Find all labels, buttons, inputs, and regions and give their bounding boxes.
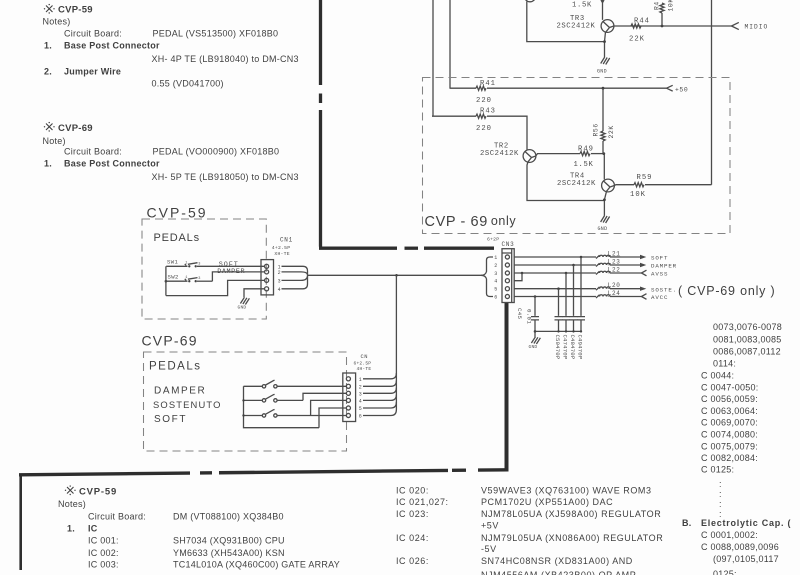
svg-text:C 0001,0002:: C 0001,0002:: [701, 530, 758, 540]
svg-text:CVP-69: CVP-69: [58, 123, 93, 134]
svg-text:R4: R4: [654, 1, 661, 10]
svg-text:C 0044:: C 0044:: [701, 371, 734, 381]
resistor R56 22K (vertical): [593, 88, 616, 153]
svg-text:3: 3: [494, 271, 497, 277]
svg-text:R56: R56: [593, 123, 600, 136]
svg-text:C47470P: C47470P: [562, 335, 569, 360]
svg-text:Base Post Connector: Base Post Connector: [64, 41, 160, 51]
switch sostenuto pedal: [244, 394, 304, 402]
wire (vertical feed to R41): [449, 0, 451, 88]
svg-text:22K: 22K: [629, 35, 645, 43]
junction node (emitter rail): [603, 198, 606, 201]
switch SW2 (DAMPER): [166, 274, 212, 283]
svg-text:R59: R59: [637, 174, 653, 182]
capacitor C47 470P: [562, 273, 570, 360]
wire common rail (left): [165, 266, 167, 295]
resistor R59: [614, 174, 711, 199]
heavy bus line (horizontal, y=248): [319, 247, 494, 250]
svg-text:NJM4556AM (XB423B00) OP AMP: NJM4556AM (XB423B00) OP AMP: [481, 570, 636, 575]
svg-text:CVP-59: CVP-59: [147, 205, 208, 221]
svg-text:4+2.5P: 4+2.5P: [272, 245, 290, 251]
svg-text:IC 023:: IC 023:: [396, 509, 429, 519]
svg-text:GND: GND: [529, 344, 538, 350]
junction node (+50 / R56): [602, 87, 605, 90]
wire CN pin4 into soft line: [311, 400, 346, 415]
note block bottom-right (capacitor list): [682, 322, 791, 575]
svg-text:R49: R49: [578, 146, 594, 154]
resistor R44: [629, 18, 650, 44]
reference mark ※: [44, 122, 55, 132]
svg-text:SOFT: SOFT: [154, 414, 187, 425]
svg-text:Electrolytic Cap. (: Electrolytic Cap. (: [701, 518, 791, 528]
capacitor C49 470P: [577, 257, 585, 360]
svg-text:Circuit Board:: Circuit Board:: [64, 147, 122, 157]
svg-text:NJM79L05UA (XN086A00) REGULA: NJM79L05UA (XN086A00) REGULATOR: [481, 533, 663, 543]
svg-text:Notes): Notes): [43, 17, 71, 27]
svg-text:220: 220: [476, 125, 492, 133]
svg-text:PEDAL (VS513500) XF018B0: PEDAL (VS513500) XF018B0: [153, 29, 279, 39]
svg-text:1: 1: [185, 276, 187, 280]
transistor TR4: [557, 172, 614, 192]
junction node (rail/sostenuto): [242, 399, 244, 401]
wire CN3 pin2 (DAMPER line): [514, 264, 596, 266]
svg-text:1: 1: [494, 255, 497, 261]
svg-text:0.01: 0.01: [525, 309, 532, 324]
junction nodes on ground rail: [534, 330, 537, 333]
svg-text:TC14L010A (XQ460C00) GATE ARRA: TC14L010A (XQ460C00) GATE ARRAY: [173, 560, 340, 570]
wire R56/R49 node down to TR4: [603, 154, 605, 180]
wire cable CN1 to CN3: [307, 274, 481, 276]
svg-text:DM (VT088100) XQ384B0: DM (VT088100) XQ384B0: [173, 512, 284, 522]
svg-text:Base Post Connector: Base Post Connector: [64, 159, 160, 169]
svg-text:C 0069,0070:: C 0069,0070:: [701, 418, 758, 428]
wire R43 to TR2 base: [487, 116, 527, 150]
svg-text:GND: GND: [238, 304, 247, 310]
wire CN3 pin3 (AVSS line): [514, 272, 596, 274]
svg-text:0086,0087,0112: 0086,0087,0112: [713, 347, 781, 357]
svg-text:CN: CN: [361, 354, 368, 360]
node DAMPER (arrow + label): [640, 263, 677, 270]
svg-text:1: 1: [359, 377, 362, 383]
svg-text:C 0082,0084:: C 0082,0084:: [701, 453, 758, 463]
svg-text:MIDIO: MIDIO: [745, 24, 769, 31]
svg-text:0081,0083,0085: 0081,0083,0085: [713, 335, 782, 345]
connector CN3: [487, 237, 514, 303]
svg-text:C48470P: C48470P: [569, 335, 576, 360]
svg-text:IC 003:: IC 003:: [88, 560, 119, 570]
junction node (cable split to CVP-69 CN): [395, 274, 398, 277]
inductor L24: [596, 290, 642, 298]
node AVSS (arrow + label): [642, 270, 669, 277]
resistor R41: [450, 80, 496, 105]
svg-text:PEDALs: PEDALs: [154, 232, 200, 244]
junction node (SW2 left): [165, 280, 168, 283]
transistor TR3: [557, 15, 614, 33]
junction node (emitter/gnd): [603, 40, 606, 43]
heavy bus line (vertical divider, x=320): [319, 0, 322, 247]
svg-text:SW2: SW2: [168, 274, 179, 281]
capacitor C50 470P: [554, 289, 562, 360]
junction node pin5/C50: [557, 287, 560, 290]
svg-text:10K: 10K: [668, 0, 675, 12]
svg-text::: :: [719, 479, 722, 489]
svg-text:C 0047-0050:: C 0047-0050:: [701, 383, 759, 393]
resistor R49: [536, 146, 605, 169]
capacitor C45 0.01: [516, 297, 539, 332]
dashed box CVP-69 only: [423, 78, 731, 234]
svg-text:PEDAL (VO000900) XF018B0: PEDAL (VO000900) XF018B0: [153, 147, 280, 157]
reference mark ※: [65, 485, 76, 495]
svg-text:IC 026:: IC 026:: [396, 556, 429, 566]
resistor R43: [432, 107, 496, 133]
svg-text:6+2.5P: 6+2.5P: [354, 360, 372, 366]
wire TR1 emitter down and across: [527, 2, 605, 42]
capacitor C48 470P: [569, 265, 577, 360]
inductor L21: [596, 250, 640, 258]
wire CN1 pin4 to ground: [244, 289, 264, 298]
svg-text:AVCC: AVCC: [651, 294, 668, 301]
svg-text:C50470P: C50470P: [554, 335, 561, 360]
svg-text:(097,0105,0117: (097,0105,0117: [713, 554, 779, 564]
svg-text:0.55 (VD041700): 0.55 (VD041700): [152, 79, 224, 89]
wire CN3 pin6 (AVCC line): [514, 296, 596, 298]
svg-text:1.5K: 1.5K: [572, 1, 592, 9]
wire CN3 pin4 tied to pin3: [514, 273, 522, 281]
junction node pin3/C47: [565, 272, 568, 275]
svg-text:5: 5: [359, 406, 362, 412]
svg-text:R43: R43: [480, 107, 496, 115]
junction node pin2/C48: [572, 264, 575, 267]
svg-text:C 0056,0059:: C 0056,0059:: [701, 394, 758, 404]
wire harness CN1 to cable: [282, 266, 308, 289]
node SOFT (arrow + label): [640, 255, 668, 262]
ground (CVP-59 pedals): [238, 297, 250, 310]
svg-text:2SC2412K: 2SC2412K: [480, 150, 519, 158]
wire common rail (left + bottom): [244, 386, 320, 427]
inductor L22: [596, 267, 642, 275]
ground (TR4): [598, 216, 610, 232]
svg-text:10K: 10K: [630, 191, 646, 199]
svg-text::: :: [719, 489, 722, 499]
svg-text:( CVP-69 only ): ( CVP-69 only ): [678, 284, 775, 298]
svg-text:TR3: TR3: [570, 15, 585, 23]
svg-text:Notes): Notes): [58, 499, 86, 509]
note block CVP-59 (top left): [43, 4, 299, 89]
svg-text:2: 2: [494, 263, 497, 269]
svg-text:C 0088,0089,0096: C 0088,0089,0096: [701, 542, 779, 552]
svg-text:C 0125:: C 0125:: [701, 465, 734, 475]
svg-text:0125:: 0125:: [713, 569, 737, 575]
wire TR2 emitter to TR4 emitter rail: [527, 162, 604, 201]
svg-text:XH- 4P TE (LB918040) to DM-CN3: XH- 4P TE (LB918040) to DM-CN3: [152, 54, 299, 64]
junction node (R49/R56/TR4): [602, 152, 605, 155]
svg-text:2.: 2.: [44, 67, 52, 77]
wire (vertical from MIDIO line down to R59): [711, 0, 713, 185]
svg-text:C 0063,0064:: C 0063,0064:: [701, 406, 758, 416]
junction node (R44/R45): [661, 25, 664, 28]
svg-text:-5V: -5V: [481, 544, 497, 554]
ground (TR3): [597, 57, 610, 74]
svg-text:IC 021,027:: IC 021,027:: [396, 497, 449, 507]
svg-text:6+2P: 6+2P: [487, 237, 499, 243]
svg-text:Circuit Board:: Circuit Board:: [64, 29, 122, 39]
svg-text:4: 4: [494, 279, 497, 285]
node MIDIO (arrow + label): [732, 22, 769, 30]
svg-text:6: 6: [359, 414, 362, 420]
svg-text:1.: 1.: [44, 41, 52, 51]
svg-text:2: 2: [278, 270, 281, 276]
svg-text:C 0075,0079:: C 0075,0079:: [701, 442, 758, 452]
svg-text:1: 1: [185, 261, 187, 265]
wire sostenuto to CN pin3: [303, 393, 346, 400]
svg-text:2: 2: [359, 384, 362, 390]
node +50 (arrow + label): [667, 85, 689, 93]
svg-text::: :: [719, 499, 722, 509]
svg-text:4: 4: [359, 398, 362, 404]
junction node pin6/C45: [534, 295, 537, 298]
heavy bus line bottom divider (y~470-475): [19, 470, 509, 475]
wire CN3 pin1 (SOFT line): [514, 256, 596, 258]
svg-text:CVP-69: CVP-69: [142, 333, 198, 349]
svg-text:Jumper Wire: Jumper Wire: [64, 67, 121, 77]
svg-text:1.: 1.: [67, 524, 75, 534]
svg-text:220: 220: [476, 97, 492, 105]
wire ground rail under caps: [535, 330, 581, 332]
resistor 1.5K (vertical, clipped): [572, 0, 604, 20]
svg-text:C45: C45: [516, 308, 523, 320]
transistor TR1 (clipped at top edge): [524, 0, 535, 2]
svg-text:IC 001:: IC 001:: [88, 536, 119, 546]
svg-text:1.: 1.: [44, 159, 52, 169]
wire TR3 collector to MIDIO: [614, 25, 732, 27]
wire TR4 emitter to ground: [604, 191, 606, 215]
svg-text:XH-TE: XH-TE: [274, 251, 289, 257]
svg-text:AVSS: AVSS: [651, 271, 668, 278]
svg-text:+50: +50: [675, 86, 688, 93]
svg-text:SOSTE.: SOSTE.: [651, 286, 677, 293]
ground (C45 rail): [529, 331, 541, 350]
wire cable drop to CVP-69 CN: [395, 275, 397, 409]
svg-text:B.: B.: [682, 518, 692, 528]
svg-text:IC 020:: IC 020:: [396, 486, 429, 496]
svg-text:4H-TE: 4H-TE: [357, 366, 372, 372]
svg-text:SN74HC08NSR (XD831A00) AND: SN74HC08NSR (XD831A00) AND: [481, 556, 633, 566]
svg-text:2SC2412K: 2SC2412K: [557, 23, 596, 31]
svg-text:1.5K: 1.5K: [574, 161, 594, 169]
svg-text:4: 4: [278, 287, 281, 293]
svg-text:SOSTENUTO: SOSTENUTO: [153, 399, 222, 410]
wire harness cable to CN3: [481, 257, 493, 297]
svg-text:+5V: +5V: [481, 521, 499, 531]
svg-text:CN1: CN1: [280, 236, 293, 243]
connector CN1: [261, 236, 293, 295]
switch soft pedal: [244, 410, 347, 418]
svg-text:CN3: CN3: [502, 241, 515, 248]
svg-text:0114:: 0114:: [713, 359, 736, 369]
heavy line left edge (bottom-left vertical): [19, 474, 22, 571]
wire TR3 emitter to ground: [605, 32, 606, 57]
wire (vertical feed to R43): [432, 0, 434, 116]
svg-text:V59WAVE3 (XQ763100) WAVE ROM3: V59WAVE3 (XQ763100) WAVE ROM3: [481, 486, 652, 496]
junction node pin3/pin4: [521, 272, 524, 275]
svg-text:CVP-59: CVP-59: [58, 5, 93, 16]
connector CN (6P): [343, 354, 372, 421]
svg-text:NJM78L05UA (XJ598A00) REGULA: NJM78L05UA (XJ598A00) REGULATOR: [481, 509, 661, 519]
svg-text:TR2: TR2: [494, 142, 509, 150]
svg-text:SOFT: SOFT: [651, 255, 668, 262]
svg-text:C49470P: C49470P: [577, 335, 584, 360]
svg-text:R44: R44: [634, 18, 650, 26]
note block bottom-middle (IC list): [396, 486, 663, 575]
svg-text:IC 024:: IC 024:: [396, 533, 429, 543]
reference mark ※: [44, 4, 55, 14]
inductor L20: [596, 282, 640, 290]
switch SW1 (SOFT): [166, 259, 264, 268]
svg-text:IC 002:: IC 002:: [88, 548, 119, 558]
dashed box CVP-69 pedals: [144, 352, 347, 451]
wire R41 to +50: [487, 87, 667, 89]
svg-text:XH- 5P TE (LB918050) to DM-CN3: XH- 5P TE (LB918050) to DM-CN3: [152, 172, 299, 182]
wire CN1 pin2 to SW2 (damper): [212, 272, 264, 281]
svg-text:C 0074,0080:: C 0074,0080:: [701, 430, 758, 440]
svg-text:5: 5: [494, 287, 497, 293]
svg-text:SH7034 (XQ931B00) CPU: SH7034 (XQ931B00) CPU: [173, 536, 285, 546]
inductor L23: [596, 259, 640, 267]
svg-text:YM6633 (XH543A00) KSN: YM6633 (XH543A00) KSN: [173, 548, 285, 558]
wire harness CN to cable: [363, 373, 396, 416]
svg-text:PCM1702U (XP551A00) DAC: PCM1702U (XP551A00) DAC: [481, 497, 613, 507]
note block CVP-69 (left): [43, 122, 299, 182]
dashed box CVP-59 pedals: [142, 219, 266, 319]
note block bottom-left (CVP-59 DM board): [58, 485, 340, 569]
svg-text:GND: GND: [597, 68, 607, 74]
svg-text:22K: 22K: [608, 125, 615, 138]
svg-text:R41: R41: [480, 80, 496, 88]
resistor R45 10K (vertical, clipped at top): [654, 0, 675, 26]
transistor TR2: [480, 142, 536, 162]
svg-text:SW1: SW1: [167, 259, 179, 266]
svg-text:Circuit Board:: Circuit Board:: [88, 512, 146, 522]
svg-text:2SC2412K: 2SC2412K: [557, 180, 596, 188]
svg-text:IC: IC: [88, 524, 98, 534]
svg-text:PEDALs: PEDALs: [149, 361, 201, 373]
svg-text:3: 3: [278, 278, 281, 284]
junction node pin1/C49: [580, 256, 583, 259]
svg-text:CVP - 69only: CVP - 69only: [425, 214, 517, 230]
svg-text:DAMPER: DAMPER: [651, 263, 677, 270]
svg-text:0073,0076-0078: 0073,0076-0078: [713, 322, 782, 332]
node AVCC (arrow + label): [642, 294, 669, 301]
switch damper pedal: [244, 380, 347, 388]
svg-text:Note): Note): [43, 136, 66, 146]
svg-text:GND: GND: [598, 226, 608, 232]
junction node (rail/soft): [242, 414, 244, 416]
wire CN3 pin5 (SOSTE line): [514, 288, 596, 290]
svg-text:DAMPER: DAMPER: [154, 386, 206, 397]
svg-text:3: 3: [359, 391, 362, 397]
svg-text:CVP-59: CVP-59: [79, 487, 117, 498]
node SOSTE. (arrow + label): [640, 286, 677, 293]
heavy bus line below CN3 (vertical x=506.5): [505, 303, 509, 470]
svg-text:6: 6: [494, 295, 497, 301]
wire CN pin5 to common: [319, 408, 346, 428]
wire CN1 pin3 to rail: [166, 280, 265, 295]
